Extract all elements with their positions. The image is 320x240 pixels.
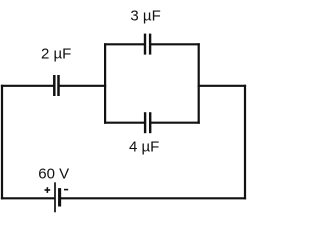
battery V1 60 V: short (negative) plate [58,188,61,206]
svg-text:4 µF: 4 µF [129,138,159,155]
wire: bottom branch left, to capacitor C3 [105,122,143,124]
wire: middle-left horizontal, node A to capacitor C1 [2,85,53,87]
wire: parallel combination right vertical [198,44,200,122]
capacitor C1 2 uF (plates) [54,75,58,96]
battery polarity mark: plus [45,187,51,193]
svg-text:60 V: 60 V [38,165,69,182]
wire: top branch right, capacitor C2 to right vertical [152,43,199,45]
svg-text:2 µF: 2 µF [41,45,71,62]
wire: outer right vertical [244,86,246,199]
wire: parallel combination left vertical [104,44,106,122]
svg-text:3 µF: 3 µF [130,7,160,24]
wire: bottom left, to battery positive plate [2,197,54,199]
wire: outer left vertical [1,86,3,199]
wire: bottom right, battery negative plate to right corner [62,197,246,199]
wire: middle-right horizontal, parallel combination to outer right [199,85,245,87]
wire: bottom branch right, capacitor C3 to right vertical [152,122,199,124]
capacitor C2 3 uF (plates) [145,34,150,55]
battery polarity mark: minus [64,189,68,191]
wire: top branch left, to capacitor C2 [105,43,143,45]
wire: capacitor C1 to parallel-combination left node [60,85,105,87]
capacitor C3 4 uF (plates) [145,112,150,133]
battery V1 60 V: long (positive) plate [54,182,56,212]
